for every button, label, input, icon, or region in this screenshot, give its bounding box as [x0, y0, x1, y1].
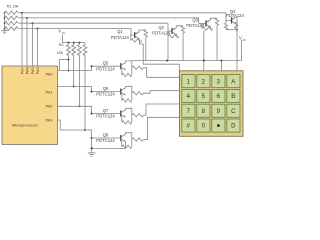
svg-text:R2: R2 [59, 43, 64, 47]
svg-text:PA0: PA0 [46, 73, 53, 77]
svg-text:Q3: Q3 [192, 17, 198, 22]
svg-text:R1 10k: R1 10k [7, 5, 19, 9]
svg-text:CC: CC [62, 31, 66, 35]
svg-text:Q6: Q6 [103, 86, 109, 91]
svg-text:PDTC124: PDTC124 [96, 66, 115, 71]
svg-text:Q8: Q8 [103, 132, 109, 137]
svg-text:PA7: PA7 [20, 67, 24, 74]
svg-text:PDTA124: PDTA124 [111, 35, 130, 40]
svg-text:PA4: PA4 [36, 67, 40, 74]
svg-text:Q1: Q1 [117, 29, 123, 34]
svg-text:PDTC124: PDTC124 [96, 92, 115, 97]
svg-text:PA3: PA3 [46, 118, 53, 122]
svg-text:PDTC124: PDTC124 [96, 138, 115, 143]
svg-text:PA6: PA6 [25, 67, 29, 74]
svg-text:Q5: Q5 [103, 61, 109, 66]
svg-text:A: A [231, 79, 235, 85]
svg-text:B: B [231, 94, 235, 100]
svg-text:Microprocessor: Microprocessor [12, 124, 39, 128]
svg-text:D: D [231, 124, 236, 130]
svg-text:PDTC124: PDTC124 [96, 114, 115, 119]
svg-text:PA1: PA1 [46, 91, 53, 95]
svg-text:C: C [231, 109, 236, 115]
svg-text:10k: 10k [57, 51, 63, 55]
svg-text:CC: CC [242, 38, 246, 42]
svg-text:Q2: Q2 [158, 25, 164, 30]
svg-text:PA5: PA5 [31, 67, 35, 74]
svg-text:Q7: Q7 [103, 108, 109, 113]
svg-text:PA2: PA2 [46, 104, 53, 108]
